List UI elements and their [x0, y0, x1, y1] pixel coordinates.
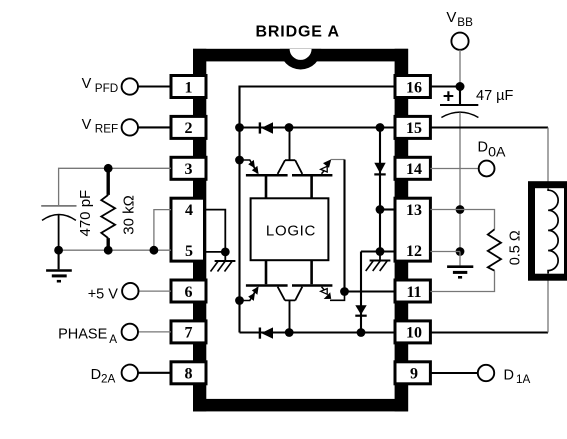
- wire R2 to pin 11: [430, 271, 494, 292]
- svg-text:16: 16: [406, 79, 422, 96]
- inductor L1 winding: [548, 189, 558, 274]
- capacitor C2 bottom plate (curved): [441, 112, 478, 117]
- svg-text:4: 4: [185, 202, 193, 219]
- diode D3 (bottom clamp, pointing left): [260, 327, 273, 338]
- svg-text:9: 9: [410, 366, 418, 383]
- node rail/pin15 bus: [235, 123, 244, 132]
- transistor Q3-Q4 lower pair (trapezoid): [246, 286, 333, 301]
- wire internal pin 15 bus: [240, 126, 396, 128]
- svg-text:470 pF: 470 pF: [77, 190, 94, 237]
- pin 14 box: [395, 157, 430, 179]
- svg-text:A: A: [109, 333, 117, 346]
- wire pin 12 to node: [430, 251, 460, 253]
- svg-text:5: 5: [185, 243, 193, 260]
- node R1/ground bus: [104, 246, 113, 255]
- label V_REF: [82, 117, 119, 136]
- wire pin 10 to inductor: [430, 331, 548, 333]
- ground symbol (chassis) at pin 5: [211, 252, 236, 272]
- wire pin 13 internal: [380, 208, 395, 210]
- label V_PFD: [82, 76, 119, 95]
- svg-text:3: 3: [185, 161, 193, 178]
- svg-text:V: V: [82, 117, 92, 133]
- terminal +5V: [122, 283, 138, 299]
- pin 11 box: [395, 280, 430, 302]
- terminal V_REF: [122, 119, 138, 135]
- svg-text:15: 15: [406, 120, 422, 137]
- wire ground bus to pins 4-5: [59, 249, 171, 251]
- node sink bus/diode column: [357, 328, 366, 337]
- svg-text:2: 2: [185, 120, 193, 137]
- wire D_2A to pin 8: [138, 372, 171, 374]
- node C1/ground: [54, 246, 63, 255]
- svg-text:14: 14: [406, 161, 422, 178]
- pin 16 box: [395, 76, 430, 98]
- node pin15/diode column: [376, 123, 385, 132]
- svg-text:D: D: [91, 367, 101, 383]
- terminal D_1A: [478, 365, 494, 381]
- wire base feed to upper transistor pair: [289, 128, 291, 160]
- label D_0A: [478, 139, 506, 160]
- lower-right emitter arrow: [321, 287, 345, 301]
- svg-text:BB: BB: [457, 16, 473, 29]
- lower-left emitter arrow: [240, 286, 259, 301]
- wire pin 9 to D_1A: [430, 372, 477, 374]
- node V_BB/pin16/C2: [456, 82, 465, 91]
- resistor R2 0.5 Ohm body: [488, 229, 501, 270]
- svg-text:30 kΩ: 30 kΩ: [121, 195, 138, 235]
- legs LOGIC to lower pair: [266, 260, 312, 284]
- label D_2A: [91, 367, 116, 386]
- label PHASE_A: [58, 326, 117, 345]
- transistor Q1-Q2 upper pair (trapezoid): [246, 160, 333, 175]
- label D_1A: [504, 367, 531, 386]
- svg-text:1: 1: [185, 79, 193, 96]
- pins 4-5 merged box: [171, 198, 205, 261]
- svg-text:7: 7: [185, 325, 193, 342]
- wire pin 16 to V_BB node: [430, 85, 460, 87]
- terminal V_BB: [451, 33, 468, 50]
- wire C1 to ground bus: [58, 214, 60, 250]
- node pin 11 output: [340, 287, 349, 296]
- ground symbol (chassis) at pin 12: [366, 252, 391, 272]
- wire internal sink bus (pin 10): [240, 331, 396, 333]
- svg-text:11: 11: [406, 284, 421, 301]
- pin 6 box: [171, 280, 206, 302]
- terminal V_PFD: [122, 78, 138, 94]
- pin 10 box: [395, 321, 430, 343]
- wire PHASE_A to pin 7: [138, 331, 171, 333]
- terminal PHASE_A: [122, 324, 138, 340]
- node pin12/diode column: [376, 247, 385, 256]
- node rail/pin12: [456, 247, 465, 256]
- node pins 4-5 ground junction: [221, 248, 230, 257]
- svg-text:V: V: [446, 9, 456, 26]
- wire diode column pin15 to pin12: [379, 128, 381, 252]
- resistor R1 bottom lead: [106, 238, 109, 250]
- svg-text:+5 V: +5 V: [88, 286, 119, 302]
- svg-text:1A: 1A: [516, 373, 531, 386]
- wire V_REF to pin 2: [138, 126, 171, 128]
- wire V_BB rail down to pin 13 node: [459, 113, 461, 252]
- svg-text:2A: 2A: [101, 373, 116, 386]
- resistor R1 30 kOhm body: [101, 195, 115, 238]
- node sink bus/lower pair: [285, 328, 294, 337]
- legs upper pair to LOGIC: [266, 176, 312, 198]
- resistor R1 30 kOhm top lead: [106, 168, 109, 195]
- node pin4 stub/ground bus: [150, 246, 159, 255]
- diode D4 (pin12 to sink bus, pointing down): [355, 252, 366, 333]
- svg-text:47 µF: 47 µF: [476, 88, 514, 104]
- node rail/pin13: [456, 205, 465, 214]
- pin 15 box: [395, 116, 430, 138]
- wire pin 15 to inductor: [430, 126, 548, 128]
- capacitor C1 470 pF top plate: [41, 205, 76, 207]
- svg-text:10: 10: [406, 325, 422, 342]
- diode D2 (to pin13 node, pointing down): [374, 163, 385, 175]
- label V_BB: [446, 9, 473, 29]
- wire lower pair to sink bus: [289, 300, 291, 332]
- svg-text:BRIDGE A: BRIDGE A: [255, 24, 339, 41]
- svg-text:13: 13: [406, 202, 422, 219]
- wire pin 13 to R2: [430, 210, 494, 230]
- svg-text:D: D: [478, 139, 488, 155]
- wire internal VCC rail (pin 16): [240, 87, 396, 333]
- capacitor C1 bottom plate (curved): [42, 215, 76, 221]
- wire pin 12 internal: [361, 250, 395, 252]
- wire upper-right output down to pin 11: [343, 160, 345, 292]
- wire node to pin 11: [345, 290, 396, 292]
- pin 7 box: [171, 321, 206, 343]
- ground symbol (earth) at C1: [46, 250, 72, 281]
- svg-text:12: 12: [406, 243, 422, 260]
- pin 3 box: [171, 157, 206, 179]
- svg-text:LOGIC: LOGIC: [266, 223, 316, 240]
- pin 2 box: [171, 116, 206, 138]
- terminal D_0A: [479, 161, 495, 177]
- pins 13-12 merged box: [395, 198, 430, 261]
- pin 9 box: [395, 362, 430, 384]
- svg-text:REF: REF: [95, 123, 118, 136]
- capacitor C2 plus sign: [444, 91, 454, 101]
- capacitor C2 47 uF lead: [459, 87, 461, 106]
- upper-right emitter arrow: [321, 159, 345, 174]
- wire V_PFD to pin 1: [138, 85, 171, 87]
- pin 8 box: [171, 362, 206, 384]
- wire pin 3 to RC node: [59, 168, 171, 205]
- inductor L1 frame: [532, 185, 567, 278]
- node top transistor base feed: [285, 123, 294, 132]
- node pin13/diode column: [376, 205, 385, 214]
- wire pin 4 stub to ground bus: [154, 210, 171, 251]
- svg-text:8: 8: [185, 366, 193, 383]
- ground symbol (earth) at V_BB cap: [447, 252, 473, 278]
- svg-text:6: 6: [185, 284, 193, 301]
- svg-text:D: D: [504, 367, 514, 383]
- node rail/lower-left emitter: [235, 296, 244, 305]
- terminal D_2A: [122, 365, 138, 381]
- node rail/upper-left emitter: [235, 156, 244, 165]
- diode D1 (top clamp, pointing left): [260, 122, 273, 133]
- wire V_BB to pin 16 node: [459, 50, 461, 87]
- logic block U2: [251, 198, 329, 260]
- IC body U1 (DIP-16 outline with notch): [193, 49, 408, 412]
- capacitor C2 top plate: [440, 104, 478, 106]
- node pin3/R1/C1 junction: [104, 164, 113, 173]
- svg-text:PFD: PFD: [95, 82, 118, 95]
- wire +5V to pin 6: [139, 290, 172, 292]
- pin 1 box: [171, 76, 206, 98]
- svg-text:0A: 0A: [488, 145, 506, 161]
- svg-text:0.5 Ω: 0.5 Ω: [508, 230, 524, 265]
- wire pin 14 to D_0A: [430, 168, 478, 170]
- upper-left emitter arrow: [240, 160, 259, 174]
- svg-text:PHASE: PHASE: [58, 326, 107, 342]
- svg-text:V: V: [82, 76, 92, 92]
- wire pins 4-5 to internal ground: [206, 210, 226, 252]
